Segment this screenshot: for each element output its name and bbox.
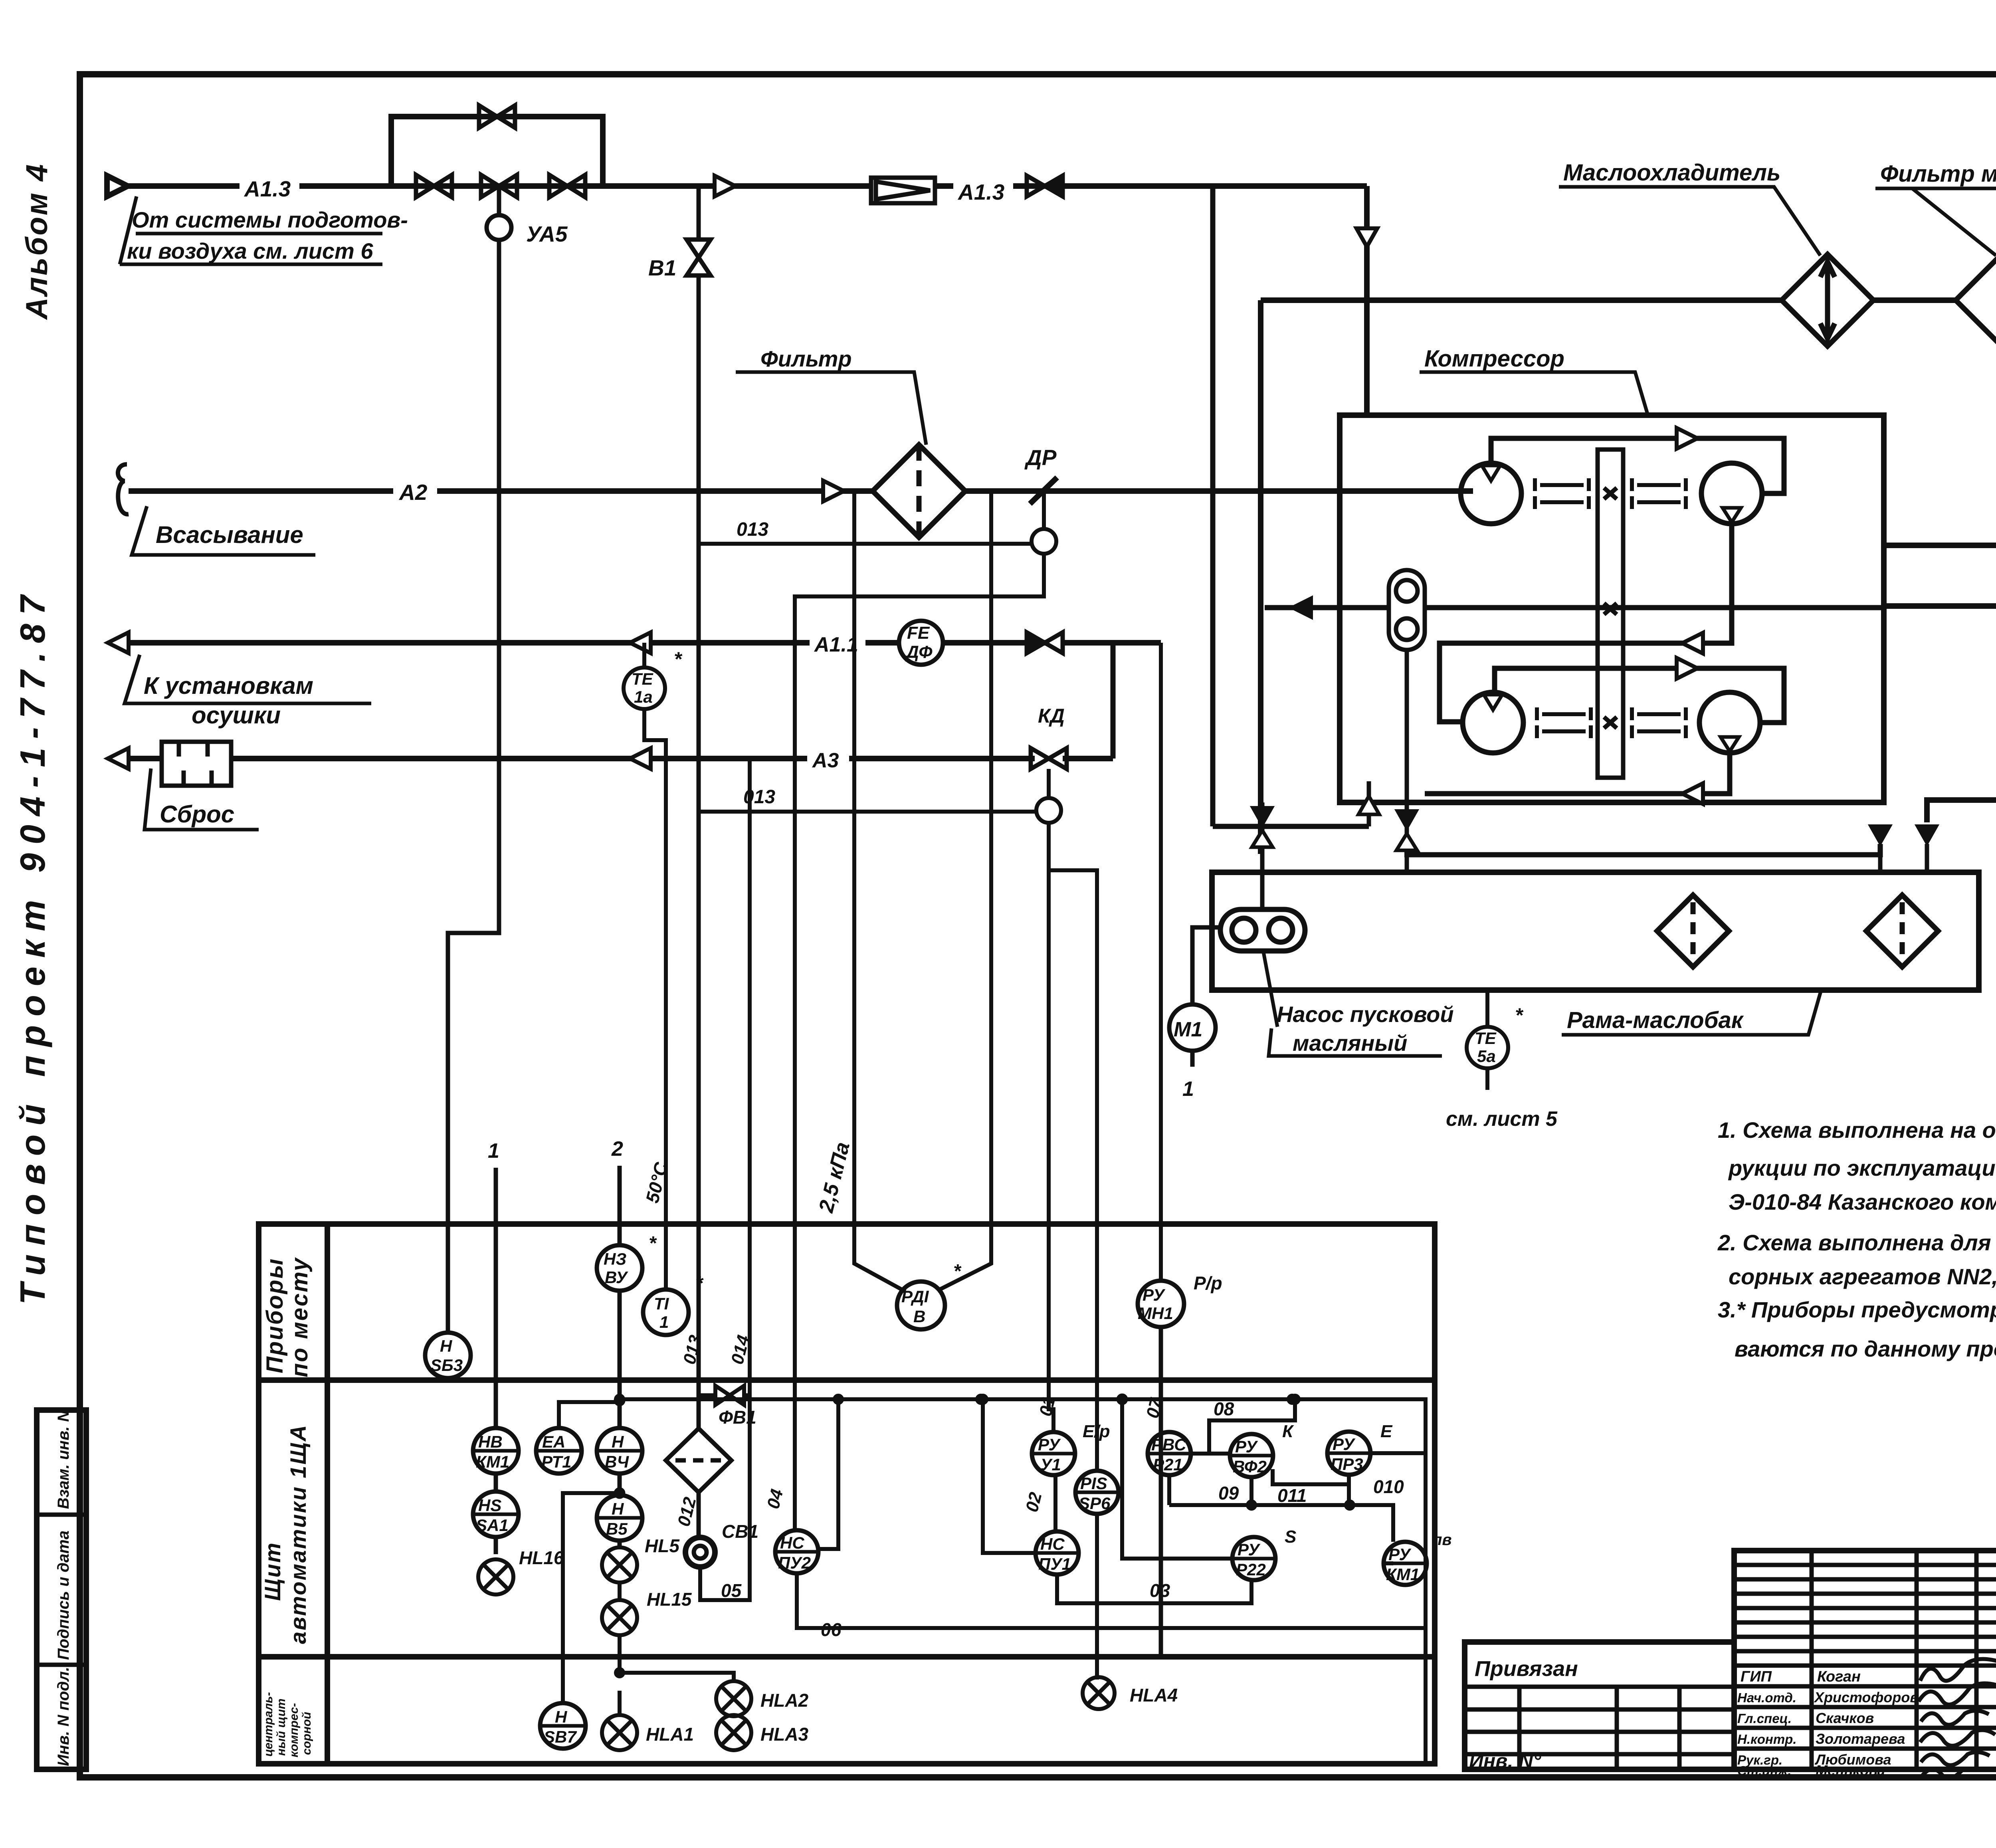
svg-text:КМ1: КМ1 bbox=[476, 1452, 509, 1471]
thermo TE 1a bbox=[624, 643, 666, 1289]
svg-text:Ст.инж.: Ст.инж. bbox=[1737, 1763, 1791, 1778]
svg-text:Щит: Щит bbox=[260, 1542, 285, 1601]
svg-text:автоматики 1ЩА: автоматики 1ЩА bbox=[285, 1424, 311, 1644]
instrument НС ПУ1 bbox=[1036, 1531, 1251, 1603]
svg-text:ЕА: ЕА bbox=[542, 1432, 565, 1451]
svg-text:05: 05 bbox=[721, 1580, 742, 1601]
svg-text:см. лист 5: см. лист 5 bbox=[1446, 1107, 1558, 1131]
instrument РУ У1 bbox=[1032, 1432, 1075, 1531]
compressor stage 1 left impeller bbox=[1461, 463, 1521, 524]
svg-text:ВФ2: ВФ2 bbox=[1233, 1457, 1267, 1476]
wire line 2 bbox=[618, 1166, 622, 1245]
tap circle 013 lower under КД bbox=[1036, 769, 1061, 823]
lamp HLА2 bbox=[616, 1669, 751, 1716]
instrument РУ ВФ2 bbox=[1230, 1434, 1273, 1505]
svg-text:5а: 5а bbox=[1477, 1047, 1496, 1066]
svg-text:ки воздуха см. лист 6: ки воздуха см. лист 6 bbox=[127, 238, 373, 263]
svg-text:HLА2: HLА2 bbox=[760, 1690, 809, 1711]
svg-text:сорной: сорной bbox=[300, 1712, 313, 1755]
button Н SВ7 bbox=[540, 1493, 616, 1749]
instrument ТI 1 bbox=[643, 1289, 689, 1335]
svg-text:Н: Н bbox=[440, 1337, 453, 1355]
svg-text:ТI: ТI bbox=[654, 1294, 669, 1313]
svg-text:Коган: Коган bbox=[1817, 1668, 1861, 1685]
wire 08 elbow bbox=[1209, 1396, 1299, 1454]
sight glass oval gauge bbox=[1389, 570, 1425, 650]
wire tank return line low bbox=[1213, 186, 1880, 855]
svg-text:ДР: ДР bbox=[1024, 445, 1057, 470]
instrument РУ ПР3 bbox=[1327, 1432, 1426, 1505]
svg-text:МН1: МН1 bbox=[1138, 1304, 1173, 1323]
signature squiggles bbox=[1919, 1654, 1996, 1778]
valve 2 on A1.3 bbox=[481, 175, 517, 197]
instrument НС ПУ2 bbox=[775, 1530, 1426, 1628]
wire motor line bbox=[1884, 603, 1996, 609]
flow arrow down on drop bbox=[1356, 228, 1377, 247]
svg-text:Привязан: Привязан bbox=[1475, 1657, 1578, 1681]
svg-text:Золотарева: Золотарева bbox=[1816, 1731, 1905, 1747]
instrument НS SА1 bbox=[473, 1491, 519, 1554]
label A1.3 mid bbox=[953, 176, 1013, 196]
wire A1.1 to A3 connector bbox=[1111, 643, 1116, 759]
svg-text:Менькова: Менькова bbox=[1816, 1762, 1885, 1779]
svg-text:HL15: HL15 bbox=[647, 1589, 692, 1610]
svg-text:В5: В5 bbox=[606, 1519, 628, 1538]
svg-text:ТЕ: ТЕ bbox=[632, 669, 654, 688]
wire stage1 right discharge bbox=[1440, 524, 1732, 722]
dryer СВ1 bbox=[685, 1492, 715, 1567]
svg-text:А2: А2 bbox=[398, 480, 428, 505]
svg-text:Рама-маслобак: Рама-маслобак bbox=[1567, 1007, 1744, 1033]
svg-text:К: К bbox=[1282, 1422, 1294, 1441]
oil pump oval (two gears) bbox=[1220, 909, 1305, 951]
instrument Н SБ3 bbox=[425, 1333, 471, 1378]
lamp HLА4 bbox=[1083, 1677, 1115, 1709]
svg-text:Скачков: Скачков bbox=[1816, 1710, 1874, 1726]
svg-text:ПУ2: ПУ2 bbox=[778, 1553, 811, 1572]
svg-text:ФВ1: ФВ1 bbox=[719, 1407, 756, 1428]
filter ФВ1 diamond bbox=[666, 1428, 731, 1492]
wire stage2 discharge bottom bbox=[1425, 753, 1730, 794]
svg-text:Всасывание: Всасывание bbox=[156, 521, 303, 548]
svg-text:А1.1: А1.1 bbox=[814, 633, 858, 656]
valve on A1.1 (half filled) bbox=[1027, 632, 1063, 653]
svg-text:ТЕ: ТЕ bbox=[1475, 1029, 1497, 1048]
tank filter diamond 2 bbox=[1866, 895, 1938, 967]
svg-text:Взам. инв. N: Взам. инв. N bbox=[55, 1410, 72, 1509]
svg-text:SВ7: SВ7 bbox=[544, 1727, 577, 1746]
svg-text:РВС: РВС bbox=[1151, 1435, 1186, 1454]
svg-text:НВ: НВ bbox=[478, 1432, 503, 1451]
wire pump suction with checks bbox=[1260, 802, 1265, 909]
svg-text:Инв. N°: Инв. N° bbox=[1469, 1750, 1541, 1772]
arrows into tank right pair bbox=[1870, 826, 1891, 844]
svg-text:сорных агрегатов NN2,3,4 схема: сорных агрегатов NN2,3,4 схема аналогичн… bbox=[1729, 1264, 1996, 1289]
oil filter diamond Фильтр масляный bbox=[1956, 254, 1996, 346]
svg-text:HL16: HL16 bbox=[519, 1547, 564, 1568]
wire stage2 loop bbox=[1495, 668, 1784, 723]
wire oil header bbox=[1261, 297, 1782, 303]
wire sight glass drop to tank bbox=[1405, 650, 1409, 872]
valve 3 on A1.3 bbox=[549, 175, 585, 197]
instrument ЕА РТ1 bbox=[536, 1402, 620, 1474]
svg-text:Н: Н bbox=[555, 1707, 568, 1726]
svg-text:РУ: РУ bbox=[1143, 1285, 1166, 1304]
instrument Н ВЧ bbox=[597, 1397, 642, 1497]
svg-text:Е/р: Е/р bbox=[1083, 1422, 1110, 1441]
svg-text:РУ: РУ bbox=[1038, 1435, 1061, 1454]
svg-text:SР6: SР6 bbox=[1079, 1494, 1111, 1513]
lamp HL5 bbox=[602, 1547, 637, 1600]
svg-text:осушки: осушки bbox=[192, 702, 281, 729]
svg-text:НS: НS bbox=[478, 1496, 501, 1515]
svg-text:*: * bbox=[1515, 1004, 1524, 1026]
wire UA5 drop to table bbox=[448, 240, 499, 1333]
wire top stage loop bbox=[1491, 438, 1784, 493]
svg-text:Р/р: Р/р bbox=[1194, 1273, 1222, 1293]
instrument РВС Р21 bbox=[1148, 1432, 1230, 1505]
table frame bbox=[259, 1224, 1435, 1764]
lamp HLА3 bbox=[716, 1715, 751, 1750]
svg-text:1: 1 bbox=[659, 1313, 669, 1331]
svg-text:А1.3: А1.3 bbox=[244, 176, 291, 201]
svg-text:010: 010 bbox=[1373, 1476, 1404, 1497]
svg-text:06: 06 bbox=[821, 1619, 842, 1640]
svg-text:ДФ: ДФ bbox=[905, 642, 933, 662]
svg-text:Компрессор: Компрессор bbox=[1424, 346, 1564, 372]
shaft bar bbox=[1598, 450, 1623, 778]
svg-text:2. Схема выполнена для компрес: 2. Схема выполнена для компрессорного аг… bbox=[1717, 1230, 1996, 1255]
svg-text:централь-: централь- bbox=[262, 1692, 275, 1757]
wire 07 from A1.1 to PY MH1 bbox=[1159, 643, 1163, 1281]
svg-text:*: * bbox=[674, 648, 683, 670]
svg-text:От системы подготов-: От системы подготов- bbox=[132, 207, 408, 232]
instrument РУ КМ1 bbox=[1384, 1542, 1427, 1585]
instrument РДI В funnel gauge bbox=[897, 1282, 945, 1329]
svg-text:ный щит: ный щит bbox=[275, 1699, 288, 1756]
svg-text:М1: М1 bbox=[1174, 1018, 1202, 1041]
valve КД on A3 bbox=[1031, 748, 1067, 769]
svg-text:SА1: SА1 bbox=[476, 1516, 509, 1535]
throttle DR on A2 bbox=[1030, 477, 1057, 504]
svg-text:1: 1 bbox=[1182, 1078, 1194, 1101]
tank filter diamond 1 bbox=[1657, 895, 1729, 967]
solenoid UA5 bbox=[487, 186, 511, 240]
svg-text:SБ3: SБ3 bbox=[430, 1356, 463, 1375]
wire return into enclosure right bbox=[1884, 543, 1996, 548]
wire 013 upper bbox=[699, 542, 1032, 546]
svg-text:НС: НС bbox=[1040, 1535, 1065, 1553]
svg-text:03: 03 bbox=[1150, 1580, 1170, 1601]
svg-text:по месту: по месту bbox=[287, 1257, 313, 1377]
signatures table bbox=[1734, 1551, 1996, 1769]
valve on A1.3 right (check) bbox=[1027, 176, 1063, 196]
svg-text:Нач.отд.: Нач.отд. bbox=[1737, 1690, 1796, 1705]
svg-text:Р21: Р21 bbox=[1153, 1455, 1183, 1474]
svg-text:НЗ: НЗ bbox=[604, 1250, 626, 1268]
thermo TE 5a on tank bbox=[1467, 990, 1508, 1090]
bus wire row2 bbox=[616, 1396, 1426, 1764]
svg-text:2: 2 bbox=[611, 1137, 623, 1161]
node arrow into A1.3 bbox=[107, 176, 128, 196]
instrument РУ Р22 bbox=[1119, 1396, 1275, 1580]
compressor stage 2 left impeller bbox=[1463, 692, 1523, 753]
wire 011 elbow bbox=[1273, 1469, 1349, 1484]
svg-text:ПУ1: ПУ1 bbox=[1038, 1555, 1071, 1573]
svg-text:масляный: масляный bbox=[1293, 1030, 1407, 1056]
svg-text:РУ: РУ bbox=[1388, 1545, 1412, 1564]
flow element FE ДФ bbox=[899, 621, 943, 665]
svg-text:Гл.спец.: Гл.спец. bbox=[1737, 1711, 1792, 1726]
svg-text:HLА4: HLА4 bbox=[1130, 1685, 1178, 1705]
svg-text:09: 09 bbox=[1218, 1483, 1239, 1503]
svg-text:Фильтр масляный: Фильтр масляный bbox=[1880, 161, 1996, 187]
wire sample from 013 tap down-left bbox=[795, 554, 1044, 1530]
svg-text:РУ: РУ bbox=[1238, 1540, 1261, 1559]
svg-text:КМ1: КМ1 bbox=[1386, 1565, 1420, 1584]
svg-text:Инв. N подл.: Инв. N подл. bbox=[55, 1667, 72, 1766]
svg-text:Р22: Р22 bbox=[1236, 1560, 1266, 1579]
svg-text:Н: Н bbox=[612, 1432, 624, 1451]
svg-text:ВУ: ВУ bbox=[605, 1268, 629, 1287]
svg-text:HLА3: HLА3 bbox=[760, 1724, 809, 1745]
wire 09/010 rail bbox=[1169, 1501, 1393, 1542]
wire 01 from lower tap to panel bbox=[1049, 823, 1097, 1471]
svg-text:В: В bbox=[913, 1307, 925, 1326]
instrument РУ МН1 bbox=[1138, 1281, 1184, 1657]
svg-text:РIS: РIS bbox=[1080, 1474, 1107, 1493]
lamp HL15 bbox=[602, 1600, 637, 1673]
svg-text:К установкам: К установкам bbox=[144, 672, 313, 699]
wire line 1 bbox=[494, 1168, 498, 1428]
tank Рама-маслобак bbox=[1212, 872, 1979, 990]
wire A1.3 main header line bbox=[128, 183, 1367, 189]
check valve rect on A1.3 bbox=[871, 178, 935, 203]
svg-text:А1.3: А1.3 bbox=[957, 180, 1004, 204]
coupling left stage1 bbox=[1535, 478, 1589, 509]
wire A2 entry jog into stage1 bbox=[1461, 489, 1473, 494]
compressor stage 1 right impeller bbox=[1701, 463, 1762, 524]
svg-text:Христофоров: Христофоров bbox=[1814, 1689, 1919, 1705]
svg-text:компрес-: компрес- bbox=[287, 1703, 301, 1757]
wire 014 bbox=[748, 759, 752, 1395]
svg-text:КД: КД bbox=[1038, 705, 1065, 727]
muffler Сброс bbox=[162, 742, 231, 786]
svg-text:ваются по данному проекту.: ваются по данному проекту. bbox=[1735, 1336, 1996, 1361]
svg-text:А3: А3 bbox=[812, 749, 839, 772]
svg-text:РУ: РУ bbox=[1333, 1435, 1356, 1454]
valve bypass bbox=[479, 105, 515, 128]
svg-text:Альбом 4: Альбом 4 bbox=[20, 163, 54, 320]
wire A2 bbox=[129, 488, 873, 494]
svg-text:1: 1 bbox=[488, 1139, 499, 1163]
instrument tap circle 013 top bbox=[1032, 491, 1056, 554]
wire mid oil line in enclosure bbox=[1265, 605, 1884, 610]
wire A1.3 right drop bbox=[1364, 186, 1370, 415]
label A1.3 left bbox=[240, 176, 299, 196]
svg-text:ВЧ: ВЧ bbox=[605, 1452, 629, 1471]
coupling right stage1 bbox=[1632, 478, 1686, 509]
svg-text:08: 08 bbox=[1214, 1398, 1234, 1419]
coupling right stage2 bbox=[1632, 707, 1686, 738]
instrument РIS SР6 bbox=[1075, 1471, 1119, 1680]
lamp HLА1 bbox=[602, 1691, 637, 1750]
wire bus elbow to НС ПУ1 bbox=[979, 1396, 1036, 1553]
svg-text:Е: Е bbox=[1380, 1422, 1393, 1441]
svg-text:У1: У1 bbox=[1040, 1455, 1061, 1474]
svg-text:ПР3: ПР3 bbox=[1331, 1455, 1363, 1474]
compressor stage 2 right impeller bbox=[1699, 692, 1760, 753]
svg-text:Насос пусковой: Насос пусковой bbox=[1277, 1002, 1454, 1027]
wire 2.5kPa left tap bbox=[854, 491, 905, 1291]
enclosure box Компрессор bbox=[1340, 415, 1884, 802]
svg-text:*: * bbox=[649, 1233, 657, 1254]
instrument Н В5 bbox=[597, 1495, 642, 1547]
flow arrow on A1.3 after bypass bbox=[715, 176, 735, 196]
instrument НЗ ВУ bbox=[597, 1245, 642, 1428]
svg-text:Н.контр.: Н.контр. bbox=[1737, 1732, 1796, 1747]
svg-text:Маслоохладитель: Маслоохладитель bbox=[1563, 160, 1780, 186]
wire 013 lower bbox=[699, 810, 1036, 814]
flow arrow on A2 bbox=[823, 481, 844, 501]
instrument НВ КМ1 bbox=[473, 1428, 519, 1491]
node hook Всасывание bbox=[118, 464, 129, 514]
svg-text:Приборы: Приборы bbox=[262, 1258, 288, 1373]
svg-text:рукции по эксплуатации 0.002.7: рукции по эксплуатации 0.002.769ТО и чер… bbox=[1728, 1155, 1996, 1181]
svg-text:УА5: УА5 bbox=[526, 222, 568, 246]
svg-text:3.* Приборы предусмотрены для: 3.* Приборы предусмотрены для каждого ко… bbox=[1718, 1297, 1996, 1322]
valve B1 on vertical tap bbox=[687, 186, 711, 1428]
valve bypass small above ФВ1 bbox=[699, 1386, 750, 1600]
oil cooler diamond Маслоохладитель bbox=[1782, 254, 1873, 346]
svg-text:ГИП: ГИП bbox=[1741, 1668, 1772, 1685]
svg-text:S: S bbox=[1285, 1527, 1296, 1547]
svg-text:Н: Н bbox=[612, 1499, 624, 1518]
wire bypass loop bbox=[391, 117, 603, 186]
svg-text:HL5: HL5 bbox=[645, 1535, 680, 1556]
svg-text:Фильтр: Фильтр bbox=[760, 346, 852, 371]
svg-text:Сброс: Сброс bbox=[160, 801, 234, 828]
svg-text:НС: НС bbox=[780, 1533, 804, 1552]
svg-text:РДI: РДI bbox=[901, 1287, 929, 1306]
lamp HL16 bbox=[478, 1559, 513, 1594]
title block attached table Привязан bbox=[1465, 1642, 1734, 1769]
svg-text:1а: 1а bbox=[634, 687, 653, 706]
motor M1 of pump bbox=[1169, 927, 1220, 1067]
svg-text:FE: FE bbox=[907, 623, 930, 643]
svg-text:1. Схема выполнена на основани: 1. Схема выполнена на основании техничес… bbox=[1718, 1117, 1996, 1143]
svg-text:Типовой проект 904-1-77.87: Типовой проект 904-1-77.87 bbox=[13, 586, 52, 1305]
svg-text:011: 011 bbox=[1277, 1485, 1307, 1506]
wire 2.5kPa right tap bbox=[937, 491, 991, 1291]
svg-text:*: * bbox=[695, 1273, 704, 1294]
svg-text:Подпись и дата: Подпись и дата bbox=[55, 1531, 72, 1660]
svg-text:HLА1: HLА1 bbox=[646, 1724, 694, 1745]
svg-text:пв: пв bbox=[1432, 1531, 1452, 1549]
coupling left stage2 bbox=[1537, 707, 1591, 738]
valve 1 on A1.3 bbox=[416, 175, 452, 197]
svg-text:СВ1: СВ1 bbox=[722, 1521, 758, 1542]
svg-text:РТ1: РТ1 bbox=[541, 1452, 571, 1471]
svg-text:013: 013 bbox=[737, 519, 768, 540]
svg-text:*: * bbox=[953, 1261, 962, 1282]
svg-text:Э-010-84 Казанского компрессор: Э-010-84 Казанского компрессорного завод… bbox=[1729, 1189, 1996, 1214]
svg-text:РУ: РУ bbox=[1235, 1437, 1258, 1456]
svg-text:В1: В1 bbox=[648, 256, 676, 280]
check arrow up into enclosure bbox=[1367, 815, 1371, 826]
filter (air) diamond bbox=[873, 445, 965, 537]
